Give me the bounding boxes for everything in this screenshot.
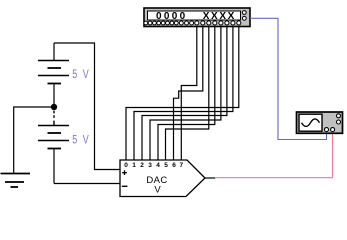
word generator output terminals bbox=[144, 21, 241, 25]
word generator XWG1 bbox=[144, 8, 250, 27]
battery V2 bbox=[38, 111, 69, 184]
DAC U1 bbox=[120, 160, 215, 197]
DAC output pin stub bbox=[205, 177, 215, 179]
svg-text:1: 1 bbox=[132, 162, 136, 169]
oscilloscope XSC1 bbox=[297, 112, 343, 133]
svg-text:5 V: 5 V bbox=[72, 68, 90, 82]
svg-text:0: 0 bbox=[124, 162, 128, 169]
battery V1 bbox=[38, 43, 69, 104]
wire generator bit2 to DAC pin2 bbox=[142, 27, 227, 161]
oscilloscope sine trace bbox=[302, 119, 320, 127]
svg-text:6: 6 bbox=[172, 162, 176, 169]
DAC body bbox=[120, 160, 205, 197]
DAC minus input marker bbox=[122, 185, 128, 187]
wire DAC output to oscilloscope (red) bbox=[215, 133, 333, 177]
svg-text:XXXX: XXXX bbox=[203, 11, 236, 22]
wire generator bit3 to DAC pin3 bbox=[150, 27, 221, 161]
wire from battery V1 top to DAC plus input bbox=[54, 43, 120, 170]
DAC pin numbers 0-7 bbox=[124, 162, 183, 169]
oscilloscope terminals bbox=[325, 114, 341, 132]
wire generator bit5 to DAC pin5 bbox=[166, 27, 209, 161]
ground bbox=[1, 174, 31, 188]
wire generator bit7 to DAC pin7 bbox=[181, 27, 197, 161]
wire generator bit4 to DAC pin4 bbox=[158, 27, 215, 161]
oscilloscope body bbox=[297, 112, 343, 133]
wire generator bit0 to DAC pin0 bbox=[126, 27, 239, 161]
oscilloscope screen bbox=[299, 114, 322, 131]
node junction between batteries bbox=[51, 104, 57, 110]
word generator clock terminals bbox=[242, 11, 246, 21]
wire generator bit1 to DAC pin1 bbox=[134, 27, 233, 161]
word generator display window bbox=[148, 11, 241, 20]
word generator body bbox=[144, 8, 250, 27]
svg-text:4: 4 bbox=[156, 162, 160, 169]
wire junction to ground bbox=[14, 107, 54, 174]
wire generator bit6 to DAC pin6 bbox=[174, 27, 203, 161]
svg-text:5 V: 5 V bbox=[72, 133, 90, 147]
svg-text:3: 3 bbox=[148, 162, 152, 169]
svg-text:0000: 0000 bbox=[156, 11, 187, 22]
svg-text:V: V bbox=[154, 185, 161, 196]
wire battery V2 to DAC minus input bbox=[54, 183, 120, 185]
wire generator clock to oscilloscope (blue) bbox=[250, 18, 327, 139]
svg-text:5: 5 bbox=[164, 162, 168, 169]
DAC plus input marker bbox=[122, 170, 127, 175]
svg-text:2: 2 bbox=[140, 162, 144, 169]
svg-text:7: 7 bbox=[179, 162, 183, 169]
